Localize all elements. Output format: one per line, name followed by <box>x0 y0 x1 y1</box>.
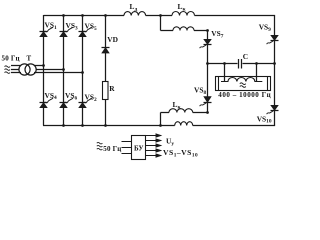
node bottom rail feeder <box>159 124 162 127</box>
wire tank rail right <box>243 63 275 65</box>
svg-text:VS8: VS8 <box>194 85 206 95</box>
inductor branch <box>173 27 194 31</box>
control unit BU <box>132 136 146 160</box>
node bottom rail col2 <box>62 124 65 127</box>
inductor bottom rail <box>175 122 193 126</box>
wire transformer left stubs <box>11 66 21 73</box>
svg-text:VS1: VS1 <box>45 21 57 31</box>
wire top rail mid segment <box>146 15 172 17</box>
node top rail VD column <box>104 14 107 17</box>
node phase A col1 <box>42 64 45 67</box>
svg-text:Lк: Lк <box>178 2 187 13</box>
wire BU inputs <box>122 142 132 154</box>
wire tank rail left <box>208 63 238 65</box>
capacitor C <box>239 52 249 68</box>
thyristor VS2 <box>79 93 97 108</box>
thyristor VS10 <box>257 105 279 124</box>
diode VD <box>102 35 118 53</box>
resistor R <box>103 82 116 100</box>
svg-text:VS7: VS7 <box>211 29 223 39</box>
thyristor VS1 <box>40 21 57 37</box>
node bottom rail R column <box>104 124 107 127</box>
svg-text:VS6: VS6 <box>65 91 77 101</box>
svg-text:VS5: VS5 <box>85 22 97 32</box>
svg-text:400 – 10000 Гц: 400 – 10000 Гц <box>218 91 271 99</box>
thyristor VS7 <box>200 29 224 63</box>
svg-text:Lк: Lк <box>173 100 182 111</box>
wire VD-R column top <box>105 16 107 82</box>
node tap right <box>255 62 258 65</box>
wire top rail left segment <box>44 15 125 17</box>
node tank right <box>273 62 276 65</box>
wire branch right <box>194 30 208 32</box>
thyristor VS8 <box>194 64 212 113</box>
thyristor VS5 <box>79 22 97 37</box>
node VS7 anode <box>206 29 209 32</box>
wire branch left <box>161 30 174 32</box>
wire furnace tap left <box>224 64 226 82</box>
wire top rail right segment <box>195 15 276 17</box>
wire Lk branch vertical <box>160 16 162 31</box>
wire bridge column 2 <box>63 16 65 126</box>
wire phase C <box>34 72 83 74</box>
wire VD-R column bottom <box>105 100 107 126</box>
svg-text:VS10: VS10 <box>257 114 272 124</box>
svg-text:VS2: VS2 <box>85 93 97 103</box>
node tap left <box>223 62 226 65</box>
inductor Lk bottom <box>169 100 193 113</box>
thyristor VS3 <box>60 21 78 37</box>
node top rail col3 <box>81 14 84 17</box>
BU output arrows <box>146 134 161 157</box>
thyristor VS6 <box>60 91 78 107</box>
svg-text:T: T <box>27 54 32 62</box>
wire bottom rail right <box>193 125 275 127</box>
inductor Lk top <box>172 2 195 16</box>
wire bottom rail left <box>43 125 175 127</box>
svg-text:БУ: БУ <box>134 145 144 153</box>
svg-text:VS3: VS3 <box>66 21 78 31</box>
svg-text:C: C <box>243 52 248 61</box>
svg-text:VS4: VS4 <box>45 91 57 101</box>
node bottom rail col3 <box>81 124 84 127</box>
wire phase A <box>34 65 44 67</box>
node top rail branch <box>159 14 162 17</box>
AC source 50 Hz <box>2 54 20 73</box>
svg-text:Lд: Lд <box>130 2 138 13</box>
wire Lk2 right <box>193 112 208 114</box>
node tank left <box>206 62 209 65</box>
node top rail col2 <box>62 14 65 17</box>
node VS8 cathode <box>206 111 209 114</box>
svg-text:VS1–VS10: VS1–VS10 <box>163 148 198 159</box>
transformer T <box>19 54 36 75</box>
wire Lk2 left <box>161 112 170 114</box>
furnace box 400-10000 Hz <box>216 77 272 100</box>
AC label 50 Hz control <box>97 142 122 152</box>
wire furnace tap right <box>256 64 258 82</box>
wire bridge column 3 <box>82 16 84 126</box>
thyristor VS4 <box>40 91 57 108</box>
node phase C col3 <box>81 71 84 74</box>
inductor Ld <box>124 2 146 16</box>
wire bridge column 1 <box>43 15 45 126</box>
wire phase B <box>36 69 63 71</box>
wire right vertical <box>274 16 276 126</box>
thyristor VS9 <box>259 23 279 45</box>
svg-text:Uу: Uу <box>166 136 174 147</box>
node phase B col2 <box>62 68 65 71</box>
svg-text:VS9: VS9 <box>259 23 271 33</box>
svg-text:VD: VD <box>107 35 118 44</box>
wire Lk2 feeder vertical <box>160 113 162 126</box>
svg-text:50 Гц: 50 Гц <box>103 145 121 153</box>
svg-text:R: R <box>109 84 115 93</box>
svg-text:50 Гц: 50 Гц <box>2 54 20 62</box>
